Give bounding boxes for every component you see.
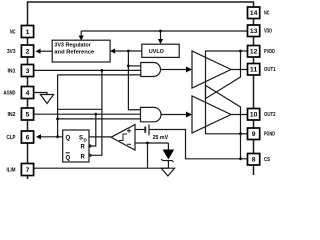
latch R1 bubble xyxy=(89,145,91,147)
svg-text:3: 3 xyxy=(26,68,30,75)
pin 9 box xyxy=(248,128,260,140)
pin 5 box xyxy=(21,108,33,120)
svg-text:3V3: 3V3 xyxy=(7,49,16,55)
arrowhead into amp2 xyxy=(186,112,192,118)
svg-text:Q: Q xyxy=(66,156,71,162)
wire battery to CS pin xyxy=(149,130,248,159)
battery 25mV short bar xyxy=(144,127,146,133)
node CS tee xyxy=(239,157,242,160)
svg-text:25 mV: 25 mV xyxy=(153,135,169,141)
zener diode D1 body xyxy=(163,150,175,160)
wire OUT1 to pin 11 xyxy=(231,69,248,71)
wire AGND stub xyxy=(34,93,47,95)
battery 25mV long bar xyxy=(148,124,150,135)
wire minus drop to ILIM rail xyxy=(147,143,149,168)
svg-text:10: 10 xyxy=(250,112,258,119)
wire IN1 from pin 3 xyxy=(34,69,141,71)
svg-text:PGND: PGND xyxy=(264,132,275,138)
arrowhead into pin 6 xyxy=(36,134,41,139)
wire cross rung xyxy=(58,108,102,110)
svg-text:OUT2: OUT2 xyxy=(264,112,276,118)
svg-text:3V3 Regulator: 3V3 Regulator xyxy=(54,42,91,48)
comparator U2 triangle xyxy=(111,125,135,151)
wire PGND to pin 9 xyxy=(241,133,248,135)
wire sense down to CS line xyxy=(240,134,242,159)
wire IN1 branch down to latch R2 xyxy=(89,70,102,155)
svg-text:8: 8 xyxy=(252,157,256,164)
svg-text:11: 11 xyxy=(250,67,258,74)
svg-text:13: 13 xyxy=(250,28,258,35)
arrowhead UVLO xyxy=(158,39,163,44)
svg-text:VDD: VDD xyxy=(264,29,272,35)
arrow into regulator top xyxy=(80,31,82,36)
svg-text:UVLO: UVLO xyxy=(149,49,165,55)
node latch Q rail junction xyxy=(56,118,59,121)
pin 12 box xyxy=(248,46,260,58)
svg-text:6: 6 xyxy=(26,134,30,141)
svg-text:R: R xyxy=(81,155,86,161)
pin 4 box xyxy=(21,87,33,99)
amp1 power stage quad xyxy=(206,51,241,99)
svg-text:R: R xyxy=(81,145,86,151)
pin 8 box xyxy=(248,154,260,166)
zener diode D1 lead xyxy=(167,143,169,150)
regulator box U1 xyxy=(52,40,110,62)
node IN2 junction xyxy=(94,113,97,116)
wire ILIM rail from pin 7 xyxy=(34,167,169,169)
comparator plus xyxy=(127,129,131,133)
pin 2 box xyxy=(21,45,33,57)
AND gate 2 xyxy=(141,107,162,121)
svg-text:AGND: AGND xyxy=(4,91,16,97)
wire down to UVLO xyxy=(160,31,162,40)
comparator minus xyxy=(127,143,131,145)
arrowhead into amp1 xyxy=(186,67,192,73)
svg-text:and Reference: and Reference xyxy=(54,50,94,56)
svg-text:12: 12 xyxy=(250,49,258,56)
node UVLO line junction xyxy=(127,50,130,53)
pin 13 box xyxy=(248,25,260,37)
UVLO box xyxy=(142,44,179,57)
wire gate2 input C xyxy=(58,118,141,120)
zener diode D1 bar xyxy=(161,159,173,162)
svg-text:4: 4 xyxy=(26,90,30,97)
svg-text:7: 7 xyxy=(26,167,30,174)
wire comparator plus input xyxy=(135,129,145,131)
wire PVDD to pin 12 xyxy=(241,50,248,52)
pin 10 box xyxy=(248,109,260,121)
wire gate1 output xyxy=(161,69,188,71)
wire UVLO to regulator xyxy=(115,50,142,52)
svg-text:OUT1: OUT1 xyxy=(264,67,276,73)
svg-text:NC: NC xyxy=(10,30,16,36)
pin 3 box xyxy=(21,65,33,77)
package top edge xyxy=(28,2,254,26)
svg-text:S: S xyxy=(79,136,83,142)
svg-text:CLP: CLP xyxy=(7,135,16,141)
svg-text:ILIM: ILIM xyxy=(7,168,16,174)
pin 1 box xyxy=(21,26,33,38)
arrowhead into pin 2 xyxy=(36,49,41,54)
node gate1 input A junction xyxy=(127,65,130,68)
wire latch Q to pin 6 xyxy=(41,136,63,138)
pin 6 box xyxy=(21,131,33,143)
zener diode D1 lead 2 xyxy=(167,161,169,169)
pin 7 box xyxy=(21,164,33,176)
node latch Q tee xyxy=(56,135,59,138)
svg-text:IN2: IN2 xyxy=(8,112,16,118)
wire gate2 output xyxy=(161,114,187,116)
svg-text:Q: Q xyxy=(66,136,71,142)
package right edge xyxy=(253,19,255,176)
wire gate1 input A xyxy=(128,65,140,67)
svg-text:NC: NC xyxy=(264,11,270,17)
arrowhead regulator xyxy=(79,36,84,41)
svg-text:14: 14 xyxy=(250,10,258,17)
wire IN2 branch down to latch R1 xyxy=(89,114,96,146)
svg-text:IN1: IN1 xyxy=(8,69,16,75)
package left edge xyxy=(27,38,29,180)
node minus junction xyxy=(146,142,149,145)
svg-text:2: 2 xyxy=(26,48,30,55)
svg-text:5: 5 xyxy=(26,111,30,118)
op-amp A1 triangle xyxy=(192,51,231,88)
wire comparator minus input xyxy=(135,142,168,144)
ground symbol bottom xyxy=(161,168,174,176)
svg-text:PVDD: PVDD xyxy=(264,49,275,55)
svg-text:9: 9 xyxy=(252,131,256,138)
svg-text:CS: CS xyxy=(264,157,270,163)
op-amp A2 triangle xyxy=(192,96,231,133)
wire IN2 from pin 5 xyxy=(34,113,141,115)
comparator hysteresis glyph xyxy=(119,134,127,141)
node PVDD junction xyxy=(239,50,242,53)
ground AGND symbol xyxy=(40,95,53,104)
wire regulator to pin 2 xyxy=(40,50,52,52)
pin 11 box xyxy=(248,64,260,76)
node VDD-UVLO junction xyxy=(159,30,162,33)
AND gate 1 xyxy=(141,63,161,77)
wire comparator out to latch SD xyxy=(89,136,111,138)
wire OUT2 to pin 10 xyxy=(231,114,248,116)
pin 14 box xyxy=(248,7,260,19)
latch box xyxy=(63,130,89,162)
wire node rail left vertical xyxy=(57,75,59,137)
latch R2 bubble xyxy=(89,154,91,156)
wire gate1 input C xyxy=(58,74,141,76)
arrowhead into regulator right xyxy=(110,48,115,53)
wire UVLO signal down xyxy=(128,51,140,110)
amp2 power stage quad xyxy=(206,85,241,133)
svg-text:1: 1 xyxy=(26,29,30,36)
node IN1 junction xyxy=(101,69,104,72)
node PGND junction xyxy=(239,132,242,135)
wire VDD rail from pin 13 xyxy=(81,30,247,32)
